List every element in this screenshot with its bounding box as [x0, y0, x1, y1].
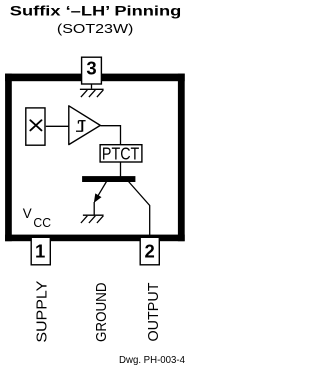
svg-text:1: 1: [35, 241, 45, 262]
svg-text:2: 2: [145, 241, 155, 262]
svg-text:3: 3: [86, 58, 96, 79]
svg-text:Suffix ‘–LH’ Pinning: Suffix ‘–LH’ Pinning: [10, 4, 182, 20]
svg-text:OUTPUT: OUTPUT: [145, 283, 162, 342]
svg-text:(SOT23W): (SOT23W): [57, 21, 133, 36]
svg-text:PTCT: PTCT: [102, 143, 140, 163]
svg-text:SUPPLY: SUPPLY: [34, 281, 51, 343]
svg-text:Dwg. PH-003-4: Dwg. PH-003-4: [119, 355, 185, 366]
svg-text:CC: CC: [33, 215, 51, 230]
svg-text:GROUND: GROUND: [93, 282, 110, 342]
svg-text:V: V: [23, 206, 32, 221]
